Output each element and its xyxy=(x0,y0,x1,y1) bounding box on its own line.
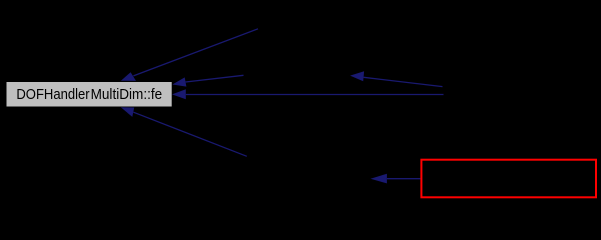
svg-text:MultiDim::fe: MultiDim::fe xyxy=(91,87,163,103)
edge C (right invisible node -> gray node right, horizontal) xyxy=(172,89,444,99)
red node (label invisible on black) xyxy=(421,160,596,198)
edge B (middle invisible node -> gray node right upper) xyxy=(172,75,243,86)
edge F (red node -> bottom invisible node, horizontal) xyxy=(371,174,421,184)
edge E (bottom invisible node -> gray node bottom) xyxy=(121,107,247,156)
edge D (right invisible node -> middle invisible node) xyxy=(350,71,442,86)
svg-text:DOFHandler: DOFHandler xyxy=(16,87,89,103)
edge A (top invisible node -> gray node top) xyxy=(121,29,258,81)
gray node DOFHandlerMultiDim::fe xyxy=(7,82,172,107)
